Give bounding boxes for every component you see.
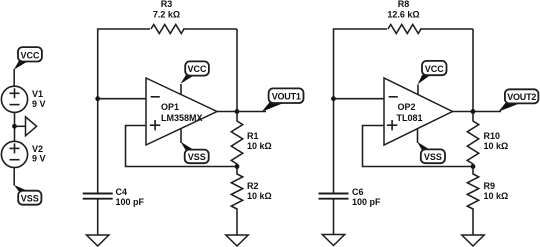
- wire (OP1 output): [217, 111, 237, 113]
- svg-text:7.2 kΩ: 7.2 kΩ: [153, 10, 180, 20]
- svg-text:R8: R8: [398, 0, 410, 9]
- wire (right column down to output): [472, 29, 474, 112]
- wire (non-inverting feedback path): [126, 126, 238, 167]
- wire: [334, 98, 385, 100]
- label R1 10 k ohm: [247, 131, 272, 151]
- capacitor C6: [319, 194, 349, 235]
- source V2: [1, 141, 27, 167]
- svg-text:R10: R10: [484, 131, 501, 141]
- label OP1 LM358MX: [161, 102, 203, 123]
- wire (OP2 output): [453, 111, 474, 113]
- op-amp OP2: [384, 78, 453, 145]
- wire (right column down to output): [236, 29, 238, 112]
- label R10 10 k ohm: [484, 131, 509, 151]
- label R3 7.2 k ohm: [153, 0, 180, 20]
- wire (left rail OP2 loop): [334, 29, 388, 194]
- wire: [13, 69, 15, 86]
- svg-text:VCC: VCC: [425, 64, 445, 74]
- svg-text:OP1: OP1: [161, 102, 179, 112]
- svg-text:VSS: VSS: [424, 152, 442, 162]
- wire: [98, 98, 146, 100]
- wire (non-inverting feedback path): [363, 126, 474, 167]
- svg-text:OP2: OP2: [398, 102, 416, 112]
- svg-text:R1: R1: [247, 131, 259, 141]
- svg-text:V1: V1: [32, 89, 43, 99]
- node (OP2 output): [471, 109, 476, 114]
- label C4 100 pF: [116, 187, 145, 207]
- power flag VCC (OP1): [181, 61, 209, 83]
- wire: [15, 125, 26, 127]
- wire: [14, 113, 16, 141]
- label V1 9 V: [32, 89, 46, 109]
- svg-text:10 kΩ: 10 kΩ: [484, 141, 509, 151]
- power flag VCC (OP2): [418, 61, 447, 84]
- wire: [237, 111, 266, 113]
- svg-text:10 kΩ: 10 kΩ: [247, 141, 272, 151]
- power flag VCC (supply): [14, 47, 42, 70]
- power flag VSS (OP1): [181, 142, 209, 163]
- node (OP1 inverting input): [95, 96, 100, 101]
- svg-text:R3: R3: [161, 0, 173, 9]
- label V2 9 V: [32, 144, 46, 163]
- wire: [473, 111, 501, 113]
- svg-text:TL081: TL081: [397, 113, 423, 123]
- node (R10/R9 junction): [471, 164, 476, 169]
- label R9 10 k ohm: [484, 181, 509, 201]
- svg-text:9 V: 9 V: [32, 99, 46, 109]
- output flag VOUT2: [498, 89, 538, 112]
- source V1: [1, 86, 27, 112]
- ground (mid-supply, right-pointing): [26, 117, 37, 136]
- resistor R1: [231, 112, 242, 167]
- wire (OP2 V- pin): [417, 128, 419, 143]
- wire (OP1 V+ pin): [180, 84, 182, 95]
- svg-text:R2: R2: [247, 181, 259, 191]
- svg-text:VOUT1: VOUT1: [272, 92, 301, 102]
- capacitor C4: [83, 194, 113, 236]
- output flag VOUT1: [262, 88, 304, 111]
- resistor R8: [388, 25, 421, 34]
- power flag VSS (supply): [14, 185, 42, 205]
- svg-text:12.6 kΩ: 12.6 kΩ: [387, 10, 419, 20]
- ground (below C6): [322, 235, 344, 246]
- ground (below C4): [87, 235, 109, 246]
- wire (left rail OP1 loop): [98, 29, 150, 194]
- svg-text:VSS: VSS: [188, 152, 206, 162]
- resistor R10: [467, 112, 478, 167]
- svg-text:R9: R9: [484, 181, 496, 191]
- svg-text:100 pF: 100 pF: [352, 197, 381, 207]
- svg-text:9 V: 9 V: [32, 154, 46, 164]
- svg-text:10 kΩ: 10 kΩ: [247, 191, 272, 201]
- resistor R2: [231, 167, 242, 236]
- wire: [13, 168, 15, 186]
- label R2 10 k ohm: [247, 181, 272, 201]
- svg-text:VSS: VSS: [21, 194, 39, 204]
- node (R1/R2 junction): [235, 164, 240, 169]
- label OP2 TL081: [397, 102, 423, 123]
- ground (below R2): [226, 235, 248, 246]
- label C6 100 pF: [352, 187, 381, 207]
- node (OP1 output): [235, 109, 240, 114]
- svg-text:10 kΩ: 10 kΩ: [484, 191, 509, 201]
- resistor R9: [467, 167, 478, 236]
- svg-text:VOUT2: VOUT2: [507, 92, 536, 102]
- svg-text:VCC: VCC: [187, 64, 207, 74]
- svg-text:C6: C6: [352, 187, 364, 197]
- power flag VSS (OP2): [417, 142, 445, 163]
- svg-text:VCC: VCC: [20, 50, 40, 60]
- wire (OP2 V+ pin): [417, 85, 419, 95]
- node (OP2 inverting input): [331, 96, 336, 101]
- wire: [420, 28, 473, 30]
- svg-text:LM358MX: LM358MX: [161, 113, 203, 123]
- label R8 12.6 k ohm: [387, 0, 419, 20]
- wire (OP1 V- pin): [180, 129, 182, 144]
- svg-text:100 pF: 100 pF: [116, 197, 145, 207]
- wire: [183, 28, 237, 30]
- resistor R3: [151, 25, 184, 34]
- ground (below R9): [462, 235, 484, 246]
- node between V1 and V2: [12, 124, 17, 129]
- svg-text:C4: C4: [116, 187, 128, 197]
- op-amp OP1: [146, 78, 217, 145]
